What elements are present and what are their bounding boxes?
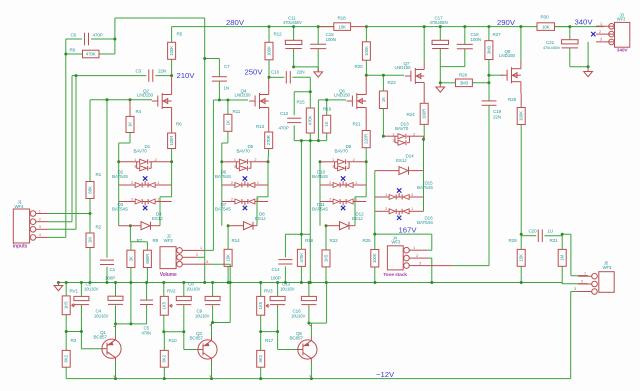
wire stage2 gate branches xyxy=(218,59,220,77)
wire C11 C15 bottoms xyxy=(293,49,295,67)
capacitor C1 xyxy=(100,259,114,261)
svg-text:15K: 15K xyxy=(226,254,231,262)
junction (488.9,26.6) xyxy=(487,25,490,28)
wire C3 row 210V node xyxy=(72,75,146,77)
junction (285.4,282.5) xyxy=(284,281,287,284)
junction (366.3,75.2) xyxy=(365,74,368,77)
connector J5 output xyxy=(599,272,614,293)
svg-text:470K: 470K xyxy=(308,115,313,125)
wire R11 jog clipper2 xyxy=(227,131,229,143)
resistor R8 xyxy=(143,250,151,267)
svg-text:Volume: Volume xyxy=(160,272,177,278)
svg-text:R28: R28 xyxy=(508,97,517,102)
wire volume pin wires xyxy=(204,249,213,251)
wire volume column x=204.7 xyxy=(204,18,206,257)
junction (230.2,282.5) xyxy=(229,281,232,284)
svg-text:100R: 100R xyxy=(422,109,427,119)
transistor Q3 xyxy=(198,340,217,359)
svg-text:100K: 100K xyxy=(519,111,524,121)
svg-text:BC857: BC857 xyxy=(94,335,108,340)
svg-text:BAT54S: BAT54S xyxy=(215,207,231,212)
svg-text:470K: 470K xyxy=(299,253,304,263)
svg-text:2: 2 xyxy=(39,218,41,222)
mosfet Q6 xyxy=(346,100,352,102)
junction (212.6,322.5) xyxy=(211,321,214,324)
svg-text:2: 2 xyxy=(411,193,413,197)
svg-text:R8: R8 xyxy=(153,238,159,243)
diode D6 xyxy=(222,184,235,186)
junction (293.6,26.6) xyxy=(292,25,295,28)
resistor R31 xyxy=(558,249,566,266)
svg-text:1: 1 xyxy=(392,133,394,137)
junction (66.2,331.5) xyxy=(65,330,68,333)
resistor R13 xyxy=(265,132,273,149)
wire R3 pins xyxy=(65,332,67,351)
svg-text:4: 4 xyxy=(39,233,41,237)
svg-text:R17: R17 xyxy=(265,338,274,343)
junction (521.2,282.5) xyxy=(520,281,523,284)
svg-text:167V: 167V xyxy=(399,225,418,234)
svg-text:R3: R3 xyxy=(71,338,77,343)
wire R5 column xyxy=(171,27,173,43)
svg-text:10U16V: 10U16V xyxy=(94,313,109,318)
svg-text:1: 1 xyxy=(385,193,387,197)
svg-text:470P: 470P xyxy=(93,33,103,38)
resistor R27 xyxy=(485,41,493,60)
svg-text:R6: R6 xyxy=(176,122,182,127)
wire R31 column xyxy=(561,236,563,250)
wire output pin2 xyxy=(562,283,579,285)
svg-text:BAT54S: BAT54S xyxy=(417,220,433,225)
svg-text:BAT54S: BAT54S xyxy=(112,207,128,212)
wire clipper3 exit to R22 xyxy=(325,226,327,250)
svg-text:10U16V: 10U16V xyxy=(195,313,210,318)
junction (163.8,282.5) xyxy=(162,281,165,284)
svg-text:1: 1 xyxy=(413,246,415,250)
junction (269,26.6) xyxy=(268,25,271,28)
svg-text:2: 2 xyxy=(231,197,233,201)
svg-text:3: 3 xyxy=(419,261,421,265)
diode D9 xyxy=(320,161,335,163)
svg-text:3: 3 xyxy=(392,139,394,143)
junction (212.6,282.5) xyxy=(211,281,214,284)
svg-text:2: 2 xyxy=(196,253,198,257)
svg-text:3: 3 xyxy=(134,165,136,169)
svg-text:1K5: 1K5 xyxy=(162,301,167,309)
svg-text:1: 1 xyxy=(257,181,259,185)
wire C11 C15 tops xyxy=(293,27,295,41)
wire Q8 gate xyxy=(489,74,503,76)
junction (130.4,225.7) xyxy=(129,224,132,227)
junction (488.9,82.8) xyxy=(487,81,490,84)
svg-text:C20: C20 xyxy=(529,229,538,234)
wire R1R2 column xyxy=(89,100,91,182)
junction (260.7,378.6) xyxy=(259,377,262,380)
wire stage2 volume riser xyxy=(212,100,214,226)
wire Q7 ladder left rail xyxy=(374,171,376,235)
wire clipper1 loop xyxy=(159,197,161,226)
capacitor C6 xyxy=(84,33,86,46)
wire R7 R8 pins xyxy=(130,242,132,250)
svg-text:8K2: 8K2 xyxy=(64,354,69,362)
wire clipper3 loop xyxy=(354,197,356,226)
junction (171.6,161.8) xyxy=(170,160,173,163)
svg-text:R20: R20 xyxy=(355,64,364,69)
svg-text:280V: 280V xyxy=(226,18,245,27)
junction (320,161.8) xyxy=(319,160,322,163)
resistor R14 xyxy=(224,249,232,266)
capacitor C20 xyxy=(537,229,539,242)
svg-text:1: 1 xyxy=(234,158,236,162)
resistor R26 xyxy=(456,79,473,87)
junction (115.5,323.9) xyxy=(114,322,117,325)
capacitor C3 xyxy=(148,69,150,82)
svg-text:R4: R4 xyxy=(136,109,142,114)
wire top link C6R9 to volume column xyxy=(115,17,205,19)
junction (268,161.8) xyxy=(267,160,270,163)
svg-text:1M: 1M xyxy=(87,237,92,243)
svg-text:290V: 290V xyxy=(497,18,516,27)
svg-text:2: 2 xyxy=(413,133,415,137)
wire clipper3 rails xyxy=(319,162,321,226)
svg-text:BAV70: BAV70 xyxy=(395,126,409,131)
svg-text:1K5: 1K5 xyxy=(323,254,328,262)
svg-text:C1: C1 xyxy=(110,267,116,272)
svg-text:2: 2 xyxy=(131,181,133,185)
svg-text:LND150: LND150 xyxy=(499,53,516,58)
resistor R24 xyxy=(423,83,425,104)
svg-text:D14: D14 xyxy=(406,153,415,158)
ground near R26 xyxy=(439,84,441,87)
junction (562.2,234.2) xyxy=(561,233,564,236)
wire input risers xyxy=(65,39,67,237)
svg-text:1K: 1K xyxy=(324,121,329,126)
resistor R17 xyxy=(257,350,265,367)
junction (431.8,282.5) xyxy=(430,281,433,284)
wire Q7 drain to rail xyxy=(423,27,425,62)
svg-text:R7: R7 xyxy=(137,238,143,243)
junction (163.8,331.7) xyxy=(162,330,165,333)
wire stage3 gate feed xyxy=(317,100,319,141)
junction (130.9,282.5) xyxy=(129,281,132,284)
svg-text:10U16V: 10U16V xyxy=(186,287,201,292)
svg-text:R16: R16 xyxy=(305,238,314,243)
svg-text:BAT54S: BAT54S xyxy=(112,174,128,179)
wire R23 column xyxy=(382,75,384,91)
svg-text:10U16V: 10U16V xyxy=(84,287,99,292)
connector J1 xyxy=(13,209,29,243)
junction (90,282.5) xyxy=(89,281,92,284)
junction (310.3,91.7) xyxy=(309,90,312,93)
wire bias A ground rail details xyxy=(65,283,67,296)
junction (424.2,26.6) xyxy=(423,25,426,28)
svg-text:R22: R22 xyxy=(330,238,339,243)
capacitor C10 xyxy=(285,71,287,84)
diode D10 xyxy=(320,184,333,186)
junction (326.7,99.9) xyxy=(325,98,328,101)
junction (366.4,26.6) xyxy=(365,25,368,28)
junction (423.5,139.4) xyxy=(422,138,425,141)
svg-text:R2: R2 xyxy=(96,225,102,230)
diode D15 xyxy=(375,196,389,198)
junction (65.8,54) xyxy=(64,53,67,56)
svg-text:270R: 270R xyxy=(266,135,271,145)
svg-text:470U450V: 470U450V xyxy=(543,45,561,50)
diode D4 xyxy=(141,222,150,230)
svg-text:10U16V: 10U16V xyxy=(280,287,295,292)
diode D16 xyxy=(375,210,389,212)
resistor R3 xyxy=(62,350,70,367)
svg-text:RV3: RV3 xyxy=(264,288,273,293)
resistor R9 xyxy=(83,50,100,58)
junction (375,282.5) xyxy=(374,281,377,284)
svg-text:WF3: WF3 xyxy=(617,17,626,22)
wire C10 out to R15C12 xyxy=(292,76,310,78)
wire C21 bottom to J3 gnd xyxy=(570,66,588,68)
wire J1 pin wires xyxy=(48,213,90,215)
wire volume pin3 riser to bias B xyxy=(229,264,231,322)
svg-text:BC857: BC857 xyxy=(290,336,304,341)
diode D8 xyxy=(244,222,253,230)
svg-text:100K: 100K xyxy=(372,253,377,263)
diode D7 xyxy=(222,201,235,203)
svg-text:WF3: WF3 xyxy=(164,238,174,243)
wire R20 column xyxy=(365,27,367,42)
resistor R20 xyxy=(362,42,370,60)
junction (310.3,282.5) xyxy=(309,281,312,284)
svg-text:2: 2 xyxy=(385,207,387,211)
junction (107,282.5) xyxy=(106,281,109,284)
svg-text:2: 2 xyxy=(329,197,331,201)
svg-text:C7: C7 xyxy=(224,64,230,69)
junction (90,213.5) xyxy=(89,212,92,215)
svg-text:C12: C12 xyxy=(280,111,289,116)
resistor R11 xyxy=(224,114,232,131)
wire R9 row xyxy=(66,53,83,55)
svg-text:inputs: inputs xyxy=(13,243,28,249)
svg-text:100K: 100K xyxy=(266,46,271,56)
svg-text:BAT54S: BAT54S xyxy=(215,174,231,179)
svg-text:BAV70: BAV70 xyxy=(237,148,251,153)
junction (204.7,282.5) xyxy=(203,281,206,284)
junction (374.8,234.1) xyxy=(373,233,376,236)
ground J3 xyxy=(587,67,589,69)
wire R27 column xyxy=(488,27,490,41)
wire output pin3 drop xyxy=(571,291,578,293)
wire clipper1 rails xyxy=(118,162,120,226)
svg-text:BC857: BC857 xyxy=(190,336,204,341)
svg-text:1: 1 xyxy=(411,207,413,211)
no-connect J3 pin2 xyxy=(591,32,595,36)
resistor R15 xyxy=(306,108,314,133)
svg-text:1K5: 1K5 xyxy=(64,301,69,309)
svg-text:15K: 15K xyxy=(519,254,524,262)
junction (326,225.7) xyxy=(325,224,328,227)
wire 340V node xyxy=(555,26,570,28)
svg-text:1: 1 xyxy=(39,209,41,213)
junction (171.6,75.6) xyxy=(170,74,173,77)
junction (318.2,26.6) xyxy=(317,25,320,28)
svg-text:1: 1 xyxy=(332,158,334,162)
capacitor C16 xyxy=(301,296,316,300)
diode D1 xyxy=(119,161,137,163)
junction (269,77.3) xyxy=(268,76,271,79)
diode D12 xyxy=(340,222,349,230)
diode D13 xyxy=(383,135,395,137)
diode D2 xyxy=(119,184,135,186)
junction (219.4,100) xyxy=(218,99,221,102)
svg-text:100N: 100N xyxy=(326,37,336,42)
connector J2 volume xyxy=(160,247,176,269)
wire output riser pin1 xyxy=(570,234,572,276)
svg-text:2: 2 xyxy=(329,181,331,185)
junction (464.8,26.6) xyxy=(463,25,466,28)
capacitor C5 xyxy=(140,299,153,301)
junction (440.3,82.8) xyxy=(439,81,442,84)
junction (301.4,234.2) xyxy=(300,233,303,236)
svg-text:BAT54S: BAT54S xyxy=(312,174,328,179)
svg-text:WF4: WF4 xyxy=(15,204,25,209)
svg-text:1: 1 xyxy=(157,197,159,201)
wire R21 column xyxy=(365,148,367,162)
junction (260.7,282.5) xyxy=(259,281,262,284)
svg-text:1: 1 xyxy=(584,272,586,276)
wire R25 column xyxy=(374,234,376,249)
svg-text:ES1J: ES1J xyxy=(255,216,265,221)
wire clipper2 loop xyxy=(256,197,258,226)
svg-text:100K: 100K xyxy=(364,46,369,56)
svg-text:R9: R9 xyxy=(70,48,76,53)
svg-text:1U: 1U xyxy=(548,229,554,234)
wire C19 R27 column xyxy=(488,83,490,101)
svg-text:100N: 100N xyxy=(471,37,481,42)
svg-text:1K5: 1K5 xyxy=(258,301,263,309)
capacitor C21 xyxy=(562,40,579,44)
wire ground rail xyxy=(58,282,562,284)
wire -12V rail xyxy=(66,378,571,380)
wire R15C12 bottom row xyxy=(293,126,295,141)
mosfet Q4 xyxy=(249,100,255,102)
resistor R2 xyxy=(86,233,94,248)
resistor R18 xyxy=(318,26,334,28)
svg-text:100R: 100R xyxy=(169,136,174,146)
svg-text:3: 3 xyxy=(234,165,236,169)
junction (76,75.6) xyxy=(75,74,78,77)
junction (228.1,282.5) xyxy=(227,281,230,284)
junction (81.4,331.5) xyxy=(80,330,83,333)
junction (308.9,282.5) xyxy=(307,281,310,284)
diode D11 xyxy=(320,201,333,203)
transistor Q1 xyxy=(102,339,121,358)
wire C17 C18 tops xyxy=(439,27,441,41)
svg-text:2: 2 xyxy=(155,158,157,162)
svg-text:220R: 220R xyxy=(364,134,369,144)
svg-text:ES1J: ES1J xyxy=(152,216,162,221)
svg-text:ES1J: ES1J xyxy=(352,216,362,221)
wire bias C details xyxy=(260,283,262,297)
junction (130,99.8) xyxy=(129,98,132,101)
resistor R10 xyxy=(160,350,168,367)
junction (204.7,58.5) xyxy=(203,57,206,60)
wire C1 column xyxy=(106,100,108,258)
wire R6 column xyxy=(171,149,173,162)
resistor R16 xyxy=(297,249,305,266)
junction (318.4,140.6) xyxy=(317,139,320,142)
svg-text:RV1: RV1 xyxy=(70,288,79,293)
capacitor C9 xyxy=(205,296,220,300)
svg-text:R10: R10 xyxy=(169,338,178,343)
resistor R29 xyxy=(517,249,525,266)
wire tone stack pin1 riser xyxy=(431,234,433,250)
wire R22 line to bias C emitter xyxy=(326,283,328,324)
svg-text:LND150: LND150 xyxy=(137,92,154,97)
svg-text:R31: R31 xyxy=(550,238,559,243)
svg-text:68K: 68K xyxy=(87,186,92,194)
junction (146.6,282.5) xyxy=(145,281,148,284)
svg-text:100P: 100P xyxy=(105,276,115,281)
svg-text:470U450V: 470U450V xyxy=(430,20,449,25)
junction (301.4,140.6) xyxy=(300,139,303,142)
svg-text:−12V: −12V xyxy=(376,370,395,379)
svg-text:C3: C3 xyxy=(136,69,142,74)
junction (440.3,26.6) xyxy=(439,25,442,28)
svg-text:2: 2 xyxy=(254,158,256,162)
svg-text:Tone stack: Tone stack xyxy=(383,272,407,278)
svg-text:R19: R19 xyxy=(323,107,332,112)
svg-text:1N: 1N xyxy=(224,86,230,91)
capacitor C13 xyxy=(270,296,285,300)
wire C20 node row xyxy=(521,235,536,237)
svg-text:R15: R15 xyxy=(297,100,306,105)
junction (115.5,282.5) xyxy=(114,281,117,284)
capacitor C18 xyxy=(457,43,473,45)
svg-text:R18: R18 xyxy=(338,16,347,21)
svg-text:1K: 1K xyxy=(225,120,230,125)
svg-text:2: 2 xyxy=(416,254,418,258)
svg-text:470P: 470P xyxy=(279,126,289,131)
diode D5 xyxy=(222,161,237,163)
potentiometer RV3 xyxy=(257,296,265,315)
resistor R5 xyxy=(168,42,176,59)
junction (310.3,140.6) xyxy=(309,139,312,142)
diode D3 xyxy=(119,201,135,203)
wire R4 jog to clipper1 xyxy=(129,133,131,144)
svg-text:8K2: 8K2 xyxy=(258,354,263,362)
resistor R19 xyxy=(323,115,331,133)
wire C17 C18 bottoms xyxy=(440,66,465,68)
transistor Q5 xyxy=(298,340,317,359)
svg-text:BAT54S: BAT54S xyxy=(417,185,433,190)
svg-text:R21: R21 xyxy=(353,122,362,127)
svg-text:100K: 100K xyxy=(169,46,174,56)
junction (488.9,75.2) xyxy=(487,74,490,77)
wire R28 to C20 node xyxy=(520,125,522,235)
capacitor C12 xyxy=(287,117,301,119)
capacitor C11 xyxy=(285,40,302,44)
junction (164.3,378.6) xyxy=(163,377,166,380)
svg-text:R13: R13 xyxy=(256,124,265,129)
svg-text:680R: 680R xyxy=(145,254,150,264)
junction (520.9,26.6) xyxy=(519,25,522,28)
svg-text:BAV70: BAV70 xyxy=(335,148,349,153)
wire tone stack pin3 to C19 line xyxy=(452,265,489,267)
svg-text:LND150: LND150 xyxy=(395,65,412,70)
junction (66.2,282.5) xyxy=(65,281,68,284)
svg-text:3: 3 xyxy=(39,225,41,229)
capacitor C2 xyxy=(74,296,89,300)
wire stage3 drain to Q7 gate xyxy=(366,74,404,76)
connector J3 HT input xyxy=(615,22,630,47)
